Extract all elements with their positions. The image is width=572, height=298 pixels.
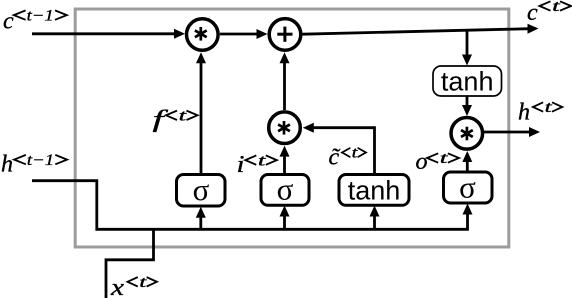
svg-text:tanh: tanh: [348, 175, 401, 205]
svg-text:c: c: [527, 0, 538, 26]
svg-text:tanh: tanh: [441, 67, 494, 97]
svg-text:c: c: [3, 9, 14, 35]
svg-text:σ: σ: [193, 172, 210, 207]
svg-text:h: h: [518, 100, 530, 126]
svg-text:i: i: [237, 152, 245, 178]
svg-text:o: o: [416, 149, 428, 175]
svg-text:h: h: [1, 152, 13, 178]
svg-text:σ: σ: [459, 169, 476, 204]
svg-text:x: x: [110, 275, 125, 298]
svg-text:σ: σ: [277, 171, 294, 206]
svg-text:c̃: c̃: [329, 145, 341, 171]
